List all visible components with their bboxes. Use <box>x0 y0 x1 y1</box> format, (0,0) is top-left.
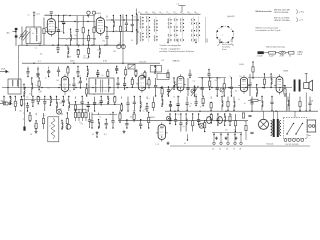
text D arrow left <box>218 44 220 47</box>
mains dashed box <box>284 118 308 139</box>
main row seg E part 4 <box>216 77 219 96</box>
svg-text:25: 25 <box>45 77 47 79</box>
low-mid row stub 6 <box>210 97 212 99</box>
rf section B stub 5 <box>88 16 90 18</box>
mains switch lever 1 <box>286 123 294 135</box>
tube socket pinout circle <box>217 26 234 43</box>
bottom-mid parts part 5 (upper) <box>197 113 200 125</box>
switch contact c6r5 <box>192 39 196 42</box>
rf section B part 1 (upper) <box>62 15 65 34</box>
legend link 2 <box>275 52 279 54</box>
pot arrow 2 <box>191 86 199 96</box>
output transformer bar 1 <box>294 80 296 92</box>
low right part @262 <box>261 96 263 111</box>
dial lamp 2 <box>66 124 71 129</box>
selector circles <box>284 139 304 142</box>
switch contact c6r4 <box>192 34 196 37</box>
svg-text:Paste: Paste <box>222 48 227 51</box>
low-mid row part 0 (upper) <box>161 96 163 107</box>
switch contact c1r0 <box>147 16 151 19</box>
electrolytic can 1 <box>207 117 212 124</box>
trimmer circle 2 <box>220 88 224 92</box>
main row seg E part 2 <box>201 77 204 96</box>
low-left row1 part 20 <box>126 97 129 112</box>
switch bracket tick 6 <box>182 13 184 14</box>
bus y111 dots <box>174 111 300 112</box>
bottom-left cluster B part 4 (upper) <box>119 112 121 123</box>
af box <box>157 74 169 80</box>
main row seg D part 4 (upper) <box>173 77 175 90</box>
rf section B part 2 (lower) <box>70 29 72 46</box>
svg-text:S9: S9 <box>187 12 189 14</box>
switch column 1 shaft <box>148 17 150 43</box>
switch column 6 shaft <box>193 17 195 43</box>
svg-text:EL84: EL84 <box>240 64 244 66</box>
antenna terminal <box>13 31 17 33</box>
rf section C part 1 (upper) <box>113 15 115 32</box>
bus wire y63 <box>22 62 160 64</box>
svg-text:Netz: Netz <box>308 134 312 137</box>
socket pin 5 <box>216 30 218 32</box>
rf section C part 3 (upper) <box>125 15 128 31</box>
left section drop wire <box>18 45 20 88</box>
mains secondary winding <box>280 121 282 136</box>
bus wire y45 <box>19 44 126 46</box>
svg-text:5p: 5p <box>190 103 192 105</box>
svg-text:Ratio El.: Ratio El. <box>140 61 147 64</box>
low right part @300 <box>299 97 301 112</box>
bm contact chain @221 <box>220 133 222 145</box>
rf vert x136 ticks <box>136 13 137 30</box>
bottom-left cluster B part 3 <box>111 112 114 129</box>
svg-text:5k: 5k <box>121 17 123 19</box>
upper row left part 6 <box>87 66 89 77</box>
switch-socket dashed link <box>205 17 207 43</box>
switch contact c7r2 <box>197 26 201 29</box>
svg-text:0,1: 0,1 <box>104 134 107 136</box>
main row seg A part 2 (upper) <box>38 77 40 90</box>
power drop 3 <box>277 111 279 119</box>
bm small mark <box>184 134 188 145</box>
svg-text:2n: 2n <box>99 117 101 119</box>
socket pin 8 <box>232 30 234 32</box>
text D arrow right <box>232 44 234 47</box>
switch contact c6r0 <box>192 19 196 22</box>
svg-text:100: 100 <box>19 111 22 113</box>
below bus parts stub 2 <box>77 45 79 47</box>
switch contact c5r2 <box>181 26 185 29</box>
svg-text:27: 27 <box>233 148 235 150</box>
rf section B part 3 <box>76 16 79 46</box>
switch contact c7r3 <box>197 29 201 32</box>
svg-text:100: 100 <box>109 114 112 116</box>
upper row right part @209 <box>207 69 210 78</box>
svg-text:Ug2=85V: Ug2=85V <box>227 16 235 18</box>
main row seg B part 1 (upper) <box>79 77 82 88</box>
svg-text:= 30:1: = 30:1 <box>299 11 304 13</box>
svg-text:10k: 10k <box>130 117 133 119</box>
left edge drop wire <box>23 94 28 131</box>
bus y111 <box>165 110 318 112</box>
svg-text:25: 25 <box>250 83 252 85</box>
svg-text:1n: 1n <box>238 99 240 101</box>
switch contact c4r3 <box>174 29 178 32</box>
socket pin 4 <box>216 37 218 39</box>
svg-text:25: 25 <box>219 148 221 150</box>
low-left row1 stub 23 <box>146 97 148 99</box>
tube V4 EF89 b <box>136 73 147 92</box>
rf vert x123 <box>122 14 124 63</box>
power chain b <box>248 114 251 116</box>
svg-text:0,1: 0,1 <box>80 102 82 104</box>
bottom-left cluster B part 5 (lower) <box>125 119 128 128</box>
gnd bl 2 <box>96 131 99 134</box>
svg-text:2n: 2n <box>74 38 76 40</box>
svg-text:T2: T2 <box>166 12 168 14</box>
svg-text:0,1: 0,1 <box>47 24 49 26</box>
low-left row1 part 22 <box>140 96 142 112</box>
upper row right part @258 <box>252 61 254 78</box>
tuning gang hatch 3 <box>23 32 30 41</box>
svg-text:0,1: 0,1 <box>64 85 66 87</box>
mains transformer core bar 1 <box>273 119 275 137</box>
svg-text:0,5: 0,5 <box>24 104 26 106</box>
switch contact c3r1 <box>168 22 172 25</box>
rf section A part 1 <box>43 18 45 46</box>
bottom-left cluster A stub 1 <box>35 113 37 115</box>
svg-text:28: 28 <box>239 148 241 150</box>
svg-text:100: 100 <box>59 103 62 105</box>
socket pin 7 <box>227 26 229 28</box>
svg-text:2n: 2n <box>28 14 30 16</box>
upper row left part 2 (lower) <box>47 70 50 78</box>
bottom-mid parts part 6 (lower) <box>204 120 206 132</box>
switch contact c3r2 <box>168 26 172 29</box>
bm gnd @236 <box>235 137 238 140</box>
low-left row1 part 7 <box>43 96 46 111</box>
rf section C part 0 (lower) <box>105 27 108 46</box>
svg-text:5p: 5p <box>183 126 185 128</box>
tube V2 ECH81 <box>94 16 106 36</box>
left input UKW <box>0 69 8 74</box>
main row seg G part 0 (lower) <box>284 85 286 97</box>
legend open cell 2 <box>289 51 294 54</box>
svg-text:1n: 1n <box>244 103 246 105</box>
svg-text:Schalter von abgegriffen: Schalter von abgegriffen <box>160 44 182 47</box>
bottom-left part x89 <box>88 113 91 129</box>
below bus parts part 1 <box>67 45 69 58</box>
bottom-mid parts part 2 <box>179 113 182 131</box>
v8 lamp circle <box>166 116 170 120</box>
rf section C part 4 (upper) <box>131 15 134 33</box>
IF box coil a <box>95 79 96 85</box>
upper row right part @190 <box>188 70 191 79</box>
svg-text:0,1: 0,1 <box>105 91 107 93</box>
low-left row1 part 4 (lower) <box>26 103 29 112</box>
svg-text:30: 30 <box>199 88 201 90</box>
low-left row1 part 23 (lower) <box>145 103 148 112</box>
coil L1 inner wire <box>29 28 31 43</box>
bottom-left cluster B part 8 <box>148 112 150 129</box>
svg-text:5p: 5p <box>178 96 180 98</box>
upper row left part 12 (lower) <box>144 71 146 78</box>
switch column 5 shaft <box>182 17 184 43</box>
bottom-left cluster A part 2 <box>42 113 44 129</box>
rf section C stub 0 <box>106 16 108 18</box>
rf small circle a <box>87 11 90 14</box>
svg-text:100: 100 <box>93 39 96 41</box>
bottom-left cluster B part 0 <box>90 113 93 129</box>
svg-text:a b: a b <box>177 4 179 6</box>
svg-text:1n: 1n <box>169 104 171 106</box>
svg-text:5p: 5p <box>23 113 25 115</box>
bl small mark <box>96 132 97 138</box>
svg-text:10k: 10k <box>102 41 105 43</box>
switch contact c4r5 <box>174 39 178 42</box>
rf section B part 6 <box>93 16 95 46</box>
svg-text:100: 100 <box>47 87 50 89</box>
bm contact chain @241 <box>240 133 242 145</box>
switch riser bar <box>179 5 186 7</box>
speaker top tick <box>305 73 308 75</box>
speaker cone <box>309 80 313 90</box>
svg-text:0,1: 0,1 <box>36 76 38 78</box>
low right part @310 <box>308 97 311 112</box>
svg-text:10k: 10k <box>194 94 197 96</box>
switch contact c1r6 <box>147 35 151 38</box>
rf hline 1 <box>58 21 95 23</box>
legend filled capacitor <box>258 51 269 54</box>
switch contact c5r3 <box>181 29 185 32</box>
power chain a <box>242 113 244 118</box>
svg-text:30: 30 <box>125 28 127 30</box>
low-left row1 stub 12 <box>75 97 77 99</box>
svg-text:30: 30 <box>83 56 85 58</box>
svg-text:2,70µF: 2,70µF <box>257 56 264 58</box>
bottom-mid parts part 7 (upper) <box>210 113 212 123</box>
svg-text:10k: 10k <box>144 109 147 111</box>
rf part above V1 <box>50 11 53 13</box>
switch contact c2r1 <box>154 19 158 22</box>
switch contact c1r1 <box>147 19 151 22</box>
svg-text:100: 100 <box>113 51 116 53</box>
svg-text:30: 30 <box>169 102 171 104</box>
main row seg A part 0 (lower) <box>23 84 25 97</box>
low-left row1 part 16 (upper) <box>100 96 103 106</box>
switch bracket tick 1 <box>147 13 149 14</box>
svg-text:a 0,4: a 0,4 <box>36 14 40 16</box>
mains switch lever 2 <box>295 123 303 135</box>
low-left row1 part 10 (upper) <box>62 96 65 106</box>
main bus y87.5 <box>2 87 292 89</box>
bottom-mid parts part 4 <box>192 113 194 131</box>
mains plug box <box>307 120 316 132</box>
low-left row1 part 5 (upper) <box>31 96 34 107</box>
svg-text:0,5: 0,5 <box>79 122 81 124</box>
main row seg D part 2 (lower) <box>161 86 163 96</box>
gnd bl 3 <box>123 130 126 133</box>
rf hline 5 <box>106 19 139 21</box>
low right part @234 <box>233 97 235 112</box>
svg-text:EM34: EM34 <box>150 117 155 119</box>
svg-text:25: 25 <box>65 14 67 16</box>
svg-text:0,1: 0,1 <box>210 78 212 80</box>
volume pot zigzag <box>51 118 55 139</box>
rf hline top <box>44 15 95 16</box>
svg-text:5p: 5p <box>34 28 36 30</box>
svg-text:50: 50 <box>30 134 32 136</box>
tuning gang hatch 2 <box>21 31 28 40</box>
svg-text:50: 50 <box>78 83 80 85</box>
svg-text:100: 100 <box>133 111 136 113</box>
tube V3 EF89 <box>59 74 70 93</box>
IF core lines <box>101 80 103 93</box>
main row seg E part 0 <box>186 78 189 96</box>
svg-text:1 2 3: 1 2 3 <box>156 144 160 146</box>
main row seg B part 2 (lower) <box>86 83 88 96</box>
svg-text:0,1: 0,1 <box>184 143 186 145</box>
svg-text:Röhrenabschirmung: Röhrenabschirmung <box>266 46 286 49</box>
switch contact c2r6 <box>154 35 158 38</box>
switch contact c0r3 <box>140 26 144 29</box>
svg-text:1n: 1n <box>230 92 232 94</box>
switch column 4 shaft <box>175 17 177 43</box>
low-left row1 part 18 (upper) <box>114 96 116 105</box>
bank top wire <box>74 108 87 110</box>
svg-text:26: 26 <box>226 148 228 150</box>
svg-text:L6: L6 <box>159 12 161 14</box>
switch contact c0r1 <box>140 19 144 22</box>
main row seg E part 5 <box>223 78 225 97</box>
switch riser <box>181 6 183 13</box>
upper row right part @168 <box>167 70 169 78</box>
pilot motor circle <box>259 119 269 129</box>
switch contact c1r5 <box>147 32 151 35</box>
switch contact c5r0 <box>181 19 185 22</box>
switch contact c3r0 <box>168 19 172 22</box>
svg-text:0,1: 0,1 <box>11 103 13 105</box>
upper row left stub 1 <box>37 67 39 69</box>
socket pin 6 <box>221 26 223 28</box>
svg-text:30: 30 <box>189 106 191 108</box>
tube V6 EL84 <box>238 75 249 94</box>
low right part @228 <box>227 97 229 112</box>
bottom-mid parts part 3 <box>185 113 187 131</box>
resistor bank <box>74 109 87 121</box>
adjust tick dots <box>167 42 220 43</box>
svg-text:5W: 5W <box>311 101 314 103</box>
rf top dots <box>61 19 124 22</box>
bottom-left cluster B part 2 (lower) <box>105 119 108 129</box>
svg-text:14: 14 <box>27 97 29 99</box>
svg-text:5p: 5p <box>101 75 103 77</box>
tube V7 EM34 <box>274 74 285 94</box>
tube V1 ECC85 <box>45 17 57 37</box>
svg-text:10k: 10k <box>239 76 242 78</box>
svg-text:25: 25 <box>234 130 236 132</box>
main row seg E part 1 (lower) <box>193 85 196 96</box>
svg-text:50: 50 <box>173 96 175 98</box>
svg-text:U3: U3 <box>138 12 140 14</box>
main row seg E part 3 (upper) <box>209 77 211 90</box>
low-left row1 part 13 <box>81 96 84 112</box>
svg-text:100: 100 <box>56 80 59 82</box>
svg-text:100: 100 <box>215 80 218 82</box>
svg-text:1n: 1n <box>49 126 51 128</box>
switch contact c0r0 <box>140 16 144 19</box>
switch bracket tick 5 <box>175 13 177 14</box>
svg-text:25: 25 <box>29 93 31 95</box>
low-left row1 part 24 <box>152 97 154 112</box>
upper row left part 0 (lower) <box>26 68 29 77</box>
bottom-mid parts part 1 (upper) <box>174 113 177 125</box>
low-left row1 part 6 (upper) <box>37 96 39 105</box>
switch column 3 shaft <box>169 17 171 43</box>
svg-text:1n: 1n <box>66 39 68 41</box>
svg-text:K8: K8 <box>145 12 147 14</box>
svg-text:100: 100 <box>225 129 228 131</box>
wire y77 v6-v7 <box>248 76 276 78</box>
svg-text:0,5: 0,5 <box>43 115 45 117</box>
switch column 0 shaft <box>141 17 143 43</box>
mains plug pins <box>309 125 315 128</box>
main row seg E part 6 <box>230 77 233 96</box>
bottom-left cluster A2 part 1 <box>66 112 68 129</box>
IF transformer box 2 <box>89 78 114 94</box>
switch column 7 shaft <box>198 17 200 43</box>
low-left row1 part 21 <box>133 96 136 111</box>
svg-text:Ant: Ant <box>7 32 11 35</box>
band brace 2 <box>296 17 299 22</box>
main row seg D part 1 <box>154 78 157 97</box>
bottom-left cluster A2 part 0 (lower) <box>61 120 63 130</box>
trimmer box <box>128 64 135 69</box>
h resistor right <box>248 99 261 101</box>
svg-text:UKW 87–100 MHz: UKW 87–100 MHz <box>274 20 290 22</box>
switch contact c6r3 <box>192 29 196 32</box>
svg-text:100: 100 <box>270 77 273 79</box>
svg-text:6,3: 6,3 <box>162 60 164 62</box>
svg-text:30: 30 <box>178 114 180 116</box>
svg-text:250V: 250V <box>70 61 75 63</box>
svg-text:5p: 5p <box>23 118 25 120</box>
riser tick <box>33 13 35 16</box>
svg-text:0,1: 0,1 <box>38 42 40 44</box>
main row seg F part 1 (lower) <box>256 84 258 97</box>
trimmer circle 1 <box>191 89 195 93</box>
low right part @252 <box>250 97 253 111</box>
hline y104 mid <box>70 104 120 106</box>
bottom-mid parts part 11 <box>234 114 236 132</box>
IF box1 coil <box>12 80 13 86</box>
svg-text:10k: 10k <box>206 117 209 119</box>
band brace 1 <box>296 9 299 14</box>
bottom-left cluster B part 6 (upper) <box>133 112 135 122</box>
switch bracket tick 4 <box>168 13 170 14</box>
svg-text:= 2:1: = 2:1 <box>299 19 303 21</box>
main row seg C part 2 (upper) <box>131 77 133 88</box>
low-left row1 part 15 <box>93 97 96 112</box>
volume pot box <box>48 117 59 142</box>
svg-text:UKW: UKW <box>1 69 5 71</box>
svg-text:50: 50 <box>39 97 41 99</box>
svg-text:2n: 2n <box>97 49 99 51</box>
svg-text:0,5: 0,5 <box>193 80 195 82</box>
dial lamp 1 cross <box>57 110 60 113</box>
svg-text:100: 100 <box>98 103 101 105</box>
bottom bus <box>170 145 310 147</box>
svg-text:5p: 5p <box>119 43 121 45</box>
